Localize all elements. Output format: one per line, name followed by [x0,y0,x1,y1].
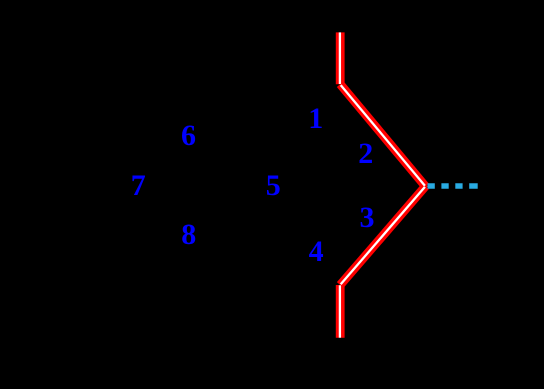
region label 6 [181,121,196,151]
red filler wedge at vertex [423,183,429,190]
slip line (cyan dashed) [428,183,478,189]
white stripe upper vertical [339,32,341,84]
region label 5 [266,171,281,201]
shock wave lower vertical segment (red) [336,285,345,338]
shock wave upper vertical segment (red) [336,32,345,84]
region label 4 [309,237,324,267]
region label 1 [308,104,323,134]
white stripe lower diagonal [341,187,425,284]
shock wave upper diagonal segment (red) [340,84,425,186]
shock wave lower diagonal segment (red) [340,186,425,285]
white stripe lower vertical [339,285,341,337]
region label 2 [358,139,373,169]
region label 3 [360,203,375,233]
region label 7 [131,171,146,201]
white stripe upper diagonal [341,85,425,186]
region label 8 [181,220,196,250]
